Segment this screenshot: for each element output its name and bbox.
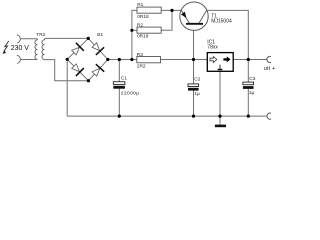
svg-text:2R2: 2R2 — [137, 64, 146, 70]
node C3 rail — [247, 115, 250, 118]
svg-text:R3: R3 — [137, 52, 143, 58]
wire collector to riser — [207, 10, 249, 59]
wire R3 right to IC1 input — [161, 59, 208, 61]
node IC common rail — [218, 115, 221, 118]
node emitter junction — [170, 9, 173, 12]
mains lightning symbol — [3, 41, 9, 54]
resistor R3 — [137, 57, 161, 63]
wire bus R1 R2 left — [132, 10, 137, 59]
node C1 top — [118, 58, 121, 61]
IC1 output arrow solid — [223, 56, 230, 62]
transistor T1 circle — [180, 2, 208, 30]
node C2 rail — [192, 115, 195, 118]
wire IC1 output to out terminal — [233, 59, 267, 61]
bridge diode top-right — [92, 43, 104, 55]
transistor emitter line — [181, 10, 189, 23]
node bridge right — [106, 58, 109, 61]
op-amp regulator IC1 box — [207, 53, 233, 72]
svg-text:MJ15004: MJ15004 — [211, 19, 232, 25]
transistor emitter arrow — [181, 12, 187, 18]
node bridge bottom — [87, 79, 90, 82]
IC1 input arrow hollow — [210, 57, 217, 63]
wire C2 bottom — [193, 90, 195, 116]
bridge B1 diamond edges — [67, 38, 108, 80]
bridge diode bottom-right — [92, 64, 104, 76]
svg-text:22000µ: 22000µ — [121, 91, 140, 97]
node base junction — [192, 58, 195, 61]
svg-text:uit +: uit + — [264, 66, 276, 72]
wire primary top — [21, 38, 37, 40]
svg-text:0R18: 0R18 — [137, 34, 149, 40]
wire C2 branch — [193, 60, 195, 84]
svg-text:1µ: 1µ — [194, 91, 200, 97]
svg-text:78xx: 78xx — [207, 44, 218, 50]
wire top rail secondary to bridge top — [45, 37, 89, 39]
svg-text:R2: R2 — [137, 23, 143, 29]
wire IC1 common to rail — [219, 71, 221, 124]
resistor R1 — [137, 7, 161, 13]
transistor base bar — [186, 23, 203, 25]
svg-text:1µ: 1µ — [249, 90, 255, 96]
mains terminal bottom — [17, 55, 20, 63]
capacitor C3 — [243, 82, 254, 89]
wire C1 branch top — [118, 60, 120, 82]
node bridge top — [87, 37, 90, 40]
capacitor C1 — [113, 82, 125, 89]
resistor R2 — [137, 27, 161, 33]
wire ground rail — [67, 115, 266, 117]
bridge diode left-bottom — [72, 64, 84, 76]
wire bridge right node to R3 — [108, 59, 137, 61]
bridge diode left-top — [72, 43, 84, 55]
wire R2 left tap — [132, 29, 137, 31]
wire R1 right to emitter — [161, 9, 181, 11]
wire transistor base down — [193, 25, 195, 60]
svg-text:C3: C3 — [249, 76, 255, 82]
node bridge left — [66, 58, 69, 61]
wire R2 right loop — [161, 10, 172, 30]
svg-text:TR2: TR2 — [36, 32, 45, 38]
output terminal plus — [267, 56, 271, 62]
mains terminal top — [17, 35, 20, 43]
svg-text:R1: R1 — [137, 2, 143, 8]
wire riser to C3 — [247, 60, 249, 83]
svg-text:230 V: 230 V — [11, 45, 30, 52]
ground symbol — [215, 125, 226, 128]
node IC1 out riser — [247, 58, 250, 61]
capacitor C2 — [188, 84, 199, 91]
transformer TR2 secondary coil — [42, 39, 45, 60]
svg-text:0R18: 0R18 — [137, 14, 149, 20]
wire secondary bottom to bridge bottom node — [45, 60, 89, 81]
node R2 tap — [130, 29, 133, 32]
node C1 rail — [118, 115, 121, 118]
wire C3 bottom — [247, 89, 249, 116]
transformer TR2 primary coil — [35, 39, 37, 60]
svg-text:B1: B1 — [97, 32, 103, 38]
wire primary bottom — [21, 59, 37, 61]
svg-text:C2: C2 — [194, 76, 200, 82]
node bus bottom — [130, 58, 133, 61]
transistor collector line — [199, 10, 207, 23]
output terminal minus — [267, 113, 271, 119]
svg-text:C1: C1 — [121, 75, 127, 81]
IC1 common pin symbol — [218, 65, 223, 70]
wire C1 branch bottom — [118, 89, 120, 117]
wire bridge left node down to ground rail — [66, 59, 68, 116]
